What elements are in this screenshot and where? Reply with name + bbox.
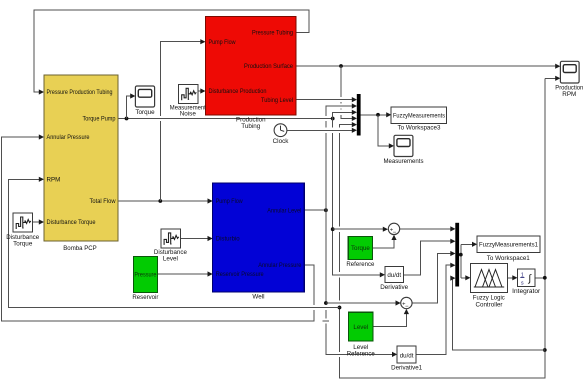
svg-text:Reference: Reference <box>346 261 374 268</box>
svg-text:Annular Pressure: Annular Pressure <box>47 134 90 141</box>
svg-text:Pressure: Pressure <box>134 272 156 279</box>
svg-text:Tubing Level: Tubing Level <box>261 97 293 104</box>
svg-text:FuzzyMeasurements1: FuzzyMeasurements1 <box>479 242 538 249</box>
wire mux M1 output -> To Workspace3 <box>361 112 392 117</box>
svg-text:Reservoir Pressure: Reservoir Pressure <box>216 271 264 278</box>
block Integrator <box>512 269 540 295</box>
svg-text:Reference: Reference <box>347 350 375 357</box>
wire annular-level down to Derivative1 <box>326 210 397 357</box>
wire Disturbance Torque -> Bomba PCP <box>32 219 44 224</box>
wire torque to Sum1 <box>333 227 388 232</box>
wire annular-pressure feedback (Well -> Bomba PCP) <box>2 134 315 321</box>
wire Derivative -> mux M2 input 2 <box>404 239 456 275</box>
svg-text:−: − <box>405 304 409 310</box>
mux M1 <box>357 94 361 136</box>
wire RPM feedback to Bomba PCP <box>9 177 340 308</box>
svg-text:Production Surface: Production Surface <box>244 63 294 70</box>
source Disturbance Torque <box>6 213 39 247</box>
svg-text:Level: Level <box>353 324 368 331</box>
wire torque down to Derivative <box>333 119 385 278</box>
sum S1 (torque error) <box>388 223 399 236</box>
svg-text:Torque: Torque <box>351 245 370 252</box>
wire total-flow branch to Production Tubing pump flow <box>160 39 205 201</box>
svg-text:RPM: RPM <box>47 177 61 184</box>
svg-text:Tubing: Tubing <box>241 123 261 130</box>
node production-surface junction <box>339 64 343 68</box>
source Reservoir <box>132 257 158 301</box>
sink To Workspace1 <box>477 236 540 262</box>
svg-text:−: − <box>393 230 397 236</box>
svg-text:FuzzyMeasurements: FuzzyMeasurements <box>393 113 445 120</box>
wire annular-level (Well -> junction) <box>304 209 326 211</box>
wire annular-level to Sum2 <box>326 300 401 305</box>
svg-text:Derivative: Derivative <box>380 284 408 291</box>
mux M2 <box>455 223 459 287</box>
svg-text:Bomba PCP: Bomba PCP <box>63 245 97 252</box>
node RPM mux2 tap junction <box>543 348 547 352</box>
svg-text:Measurements: Measurements <box>384 158 424 165</box>
scope Production RPM <box>555 61 583 98</box>
wire Sum2 -> mux M2 input 3 <box>412 251 455 303</box>
svg-text:Disturbance Production: Disturbance Production <box>209 88 267 95</box>
wire Level Reference -> Sum2 <box>373 309 409 327</box>
svg-text:Disturbance Torque: Disturbance Torque <box>47 219 97 226</box>
wire total-flow (Bomba PCP -> Well pump flow) <box>118 198 213 203</box>
sink To Workspace3 <box>391 107 446 131</box>
wire branch to Torque scope <box>127 93 136 118</box>
wire Derivative1 -> mux M2 input 4 <box>416 263 455 355</box>
wire torque-pump (Bomba PCP -> torque junctions) <box>118 118 333 120</box>
sum S2 (level error) <box>401 297 412 310</box>
wire crossing hops <box>157 97 344 357</box>
scope Measurements <box>384 135 424 165</box>
svg-text:Well: Well <box>252 294 264 301</box>
node torque mux junction <box>331 117 335 121</box>
subsystem Bomba PCP <box>44 75 118 252</box>
svg-text:To Workspace3: To Workspace3 <box>398 125 441 132</box>
source Measurement Noise <box>170 84 206 117</box>
source Clock <box>273 124 290 145</box>
svg-text:Annular Pressure: Annular Pressure <box>258 262 301 269</box>
wire Integrator output RPM net <box>340 76 561 378</box>
node torque sum junction <box>331 227 335 231</box>
source Torque Reference <box>346 236 374 268</box>
node total-flow junction <box>158 199 162 203</box>
wire tubing-level (Production Tubing -> mux M1 input 1) <box>296 97 357 102</box>
wire Reservoir -> Well <box>157 271 212 276</box>
node mux M2 output junction <box>459 253 463 257</box>
subsystem Well <box>213 183 305 301</box>
svg-text:s: s <box>521 280 524 286</box>
svg-text:Pump Flow: Pump Flow <box>216 198 243 205</box>
svg-text:Level: Level <box>163 255 178 262</box>
svg-text:Pressure Tubing: Pressure Tubing <box>252 30 294 37</box>
wire pressure-tubing feedback (Production Tubing -> Bomba PCP) <box>34 10 309 95</box>
wire torque branch to mux M1 input 3 <box>333 110 357 119</box>
node torque scope junction <box>125 117 129 121</box>
wire mux M2 output net <box>459 242 477 281</box>
svg-text:du/dt: du/dt <box>400 352 414 359</box>
svg-text:RPM: RPM <box>562 91 576 98</box>
block Fuzzy Logic Controller <box>471 263 508 308</box>
svg-text:Pressure Production Tubing: Pressure Production Tubing <box>47 89 113 96</box>
block Derivative <box>380 267 408 291</box>
svg-text:Integrator: Integrator <box>512 288 540 295</box>
node RPM pump feedback junction <box>338 306 342 310</box>
wire production-surface branch to mux M1 input 4 <box>341 66 357 121</box>
scope Torque <box>135 86 155 116</box>
svg-text:Disturbio: Disturbio <box>216 236 241 243</box>
svg-text:Torque: Torque <box>135 109 155 116</box>
wire Disturbance Level -> Well <box>180 236 213 241</box>
wire Torque Reference -> Sum1 <box>373 235 397 248</box>
svg-text:Pump Flow: Pump Flow <box>209 39 236 46</box>
wire Sum1 -> mux M2 input 1 <box>400 226 456 231</box>
wire Clock -> mux M1 input 6 <box>287 128 357 133</box>
wire production-surface (Production Tubing -> Production RPM scope) <box>296 64 560 69</box>
svg-text:Torque: Torque <box>13 240 33 247</box>
svg-text:Reservoir: Reservoir <box>132 294 158 301</box>
svg-text:Derivative1: Derivative1 <box>391 365 422 372</box>
svg-text:Torque Pump: Torque Pump <box>83 116 116 123</box>
node annular-level sum2 junction <box>324 301 328 305</box>
wire annular-level up to mux M1 input 2 <box>326 103 357 210</box>
subsystem Production Tubing <box>206 17 297 131</box>
svg-text:du/dt: du/dt <box>387 272 401 279</box>
block Derivative1 <box>391 346 422 372</box>
source Level Reference <box>347 312 375 357</box>
wire RPM tap to mux M2 input 5 <box>450 276 545 351</box>
svg-text:Noise: Noise <box>180 111 197 118</box>
svg-text:Total Flow: Total Flow <box>90 198 116 205</box>
wire Fuzzy Logic Controller -> Integrator <box>508 275 518 280</box>
svg-text:Annular Level: Annular Level <box>267 207 301 214</box>
wire Measurement Noise -> Production Tubing <box>198 88 206 93</box>
svg-text:To Workspace1: To Workspace1 <box>487 255 530 262</box>
node annular-level junction <box>324 208 328 212</box>
svg-text:Clock: Clock <box>273 138 290 145</box>
source Disturbance Level <box>154 229 187 262</box>
node integrator output junction <box>543 276 547 280</box>
node measurements junction <box>376 113 380 117</box>
svg-text:Controller: Controller <box>476 301 503 308</box>
wire branch to Measurements scope <box>378 115 394 149</box>
